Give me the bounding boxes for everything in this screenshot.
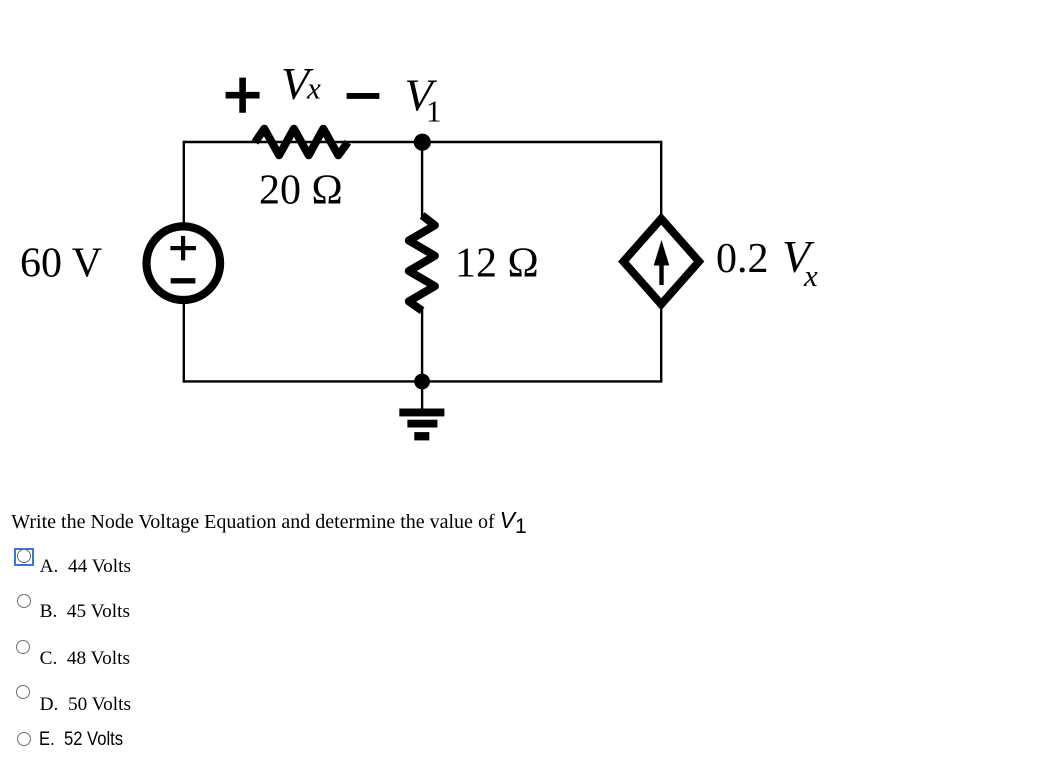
question text: [11, 509, 526, 532]
wire middle upper: node V1 down to resistor R2 top lead: [421, 142, 423, 217]
wire ground stub: bottom node down to ground symbol: [421, 381, 423, 409]
wire right rail upper: top rail down to current source top tip: [660, 141, 662, 216]
option A radio focus box: [14, 548, 34, 567]
polarity minus sign above R1: [347, 93, 380, 99]
option B radio: [17, 594, 31, 608]
option B text: [40, 602, 130, 621]
ground bar 2: [407, 420, 437, 428]
svg-text:60 V: 60 V: [20, 241, 102, 287]
wire left rail lower: source Vs bottom down to bottom rail: [183, 300, 185, 383]
svg-text:x: x: [803, 258, 818, 293]
option D text: [40, 695, 131, 714]
wire top rail: from left corner through node V1 to right corner: [184, 141, 661, 143]
svg-text:x: x: [306, 71, 321, 106]
svg-text:0.2: 0.2: [716, 236, 769, 282]
current source arrow head: [654, 240, 670, 266]
wire left rail upper: top corner down to source Vs top: [183, 141, 185, 227]
dependent current source diamond: [623, 219, 699, 305]
bottom junction dot: [414, 374, 430, 390]
current source arrow shaft: [659, 260, 663, 285]
circuit schematic: [0, 0, 1043, 500]
option E radio: [17, 732, 31, 746]
polarity plus sign above R1: [226, 78, 260, 113]
resistor R1 20-ohm horizontal zigzag: [255, 129, 348, 156]
wire right rail lower: current source bottom tip down to bottom rail: [660, 306, 662, 383]
wire bottom rail: [184, 380, 661, 382]
voltage source minus mark: [171, 278, 196, 283]
resistor R2 12-ohm vertical zigzag: [409, 215, 435, 310]
voltage source Vs 60V circle: [147, 226, 221, 300]
ground bar 1: [399, 409, 444, 417]
svg-text:20 Ω: 20 Ω: [259, 168, 343, 214]
option C text: [40, 649, 130, 668]
option A text: [40, 557, 131, 576]
option A radio: [17, 549, 31, 563]
option C radio: [16, 640, 31, 655]
option E text: [39, 730, 123, 749]
wire middle lower: resistor R2 bottom lead down to bottom node: [421, 309, 423, 381]
voltage source plus mark: [170, 236, 196, 260]
svg-text:12 Ω: 12 Ω: [455, 241, 539, 287]
option D radio: [16, 685, 30, 699]
ground bar 3: [414, 432, 429, 440]
svg-text:1: 1: [426, 94, 442, 129]
node V1 junction dot: [414, 134, 431, 151]
